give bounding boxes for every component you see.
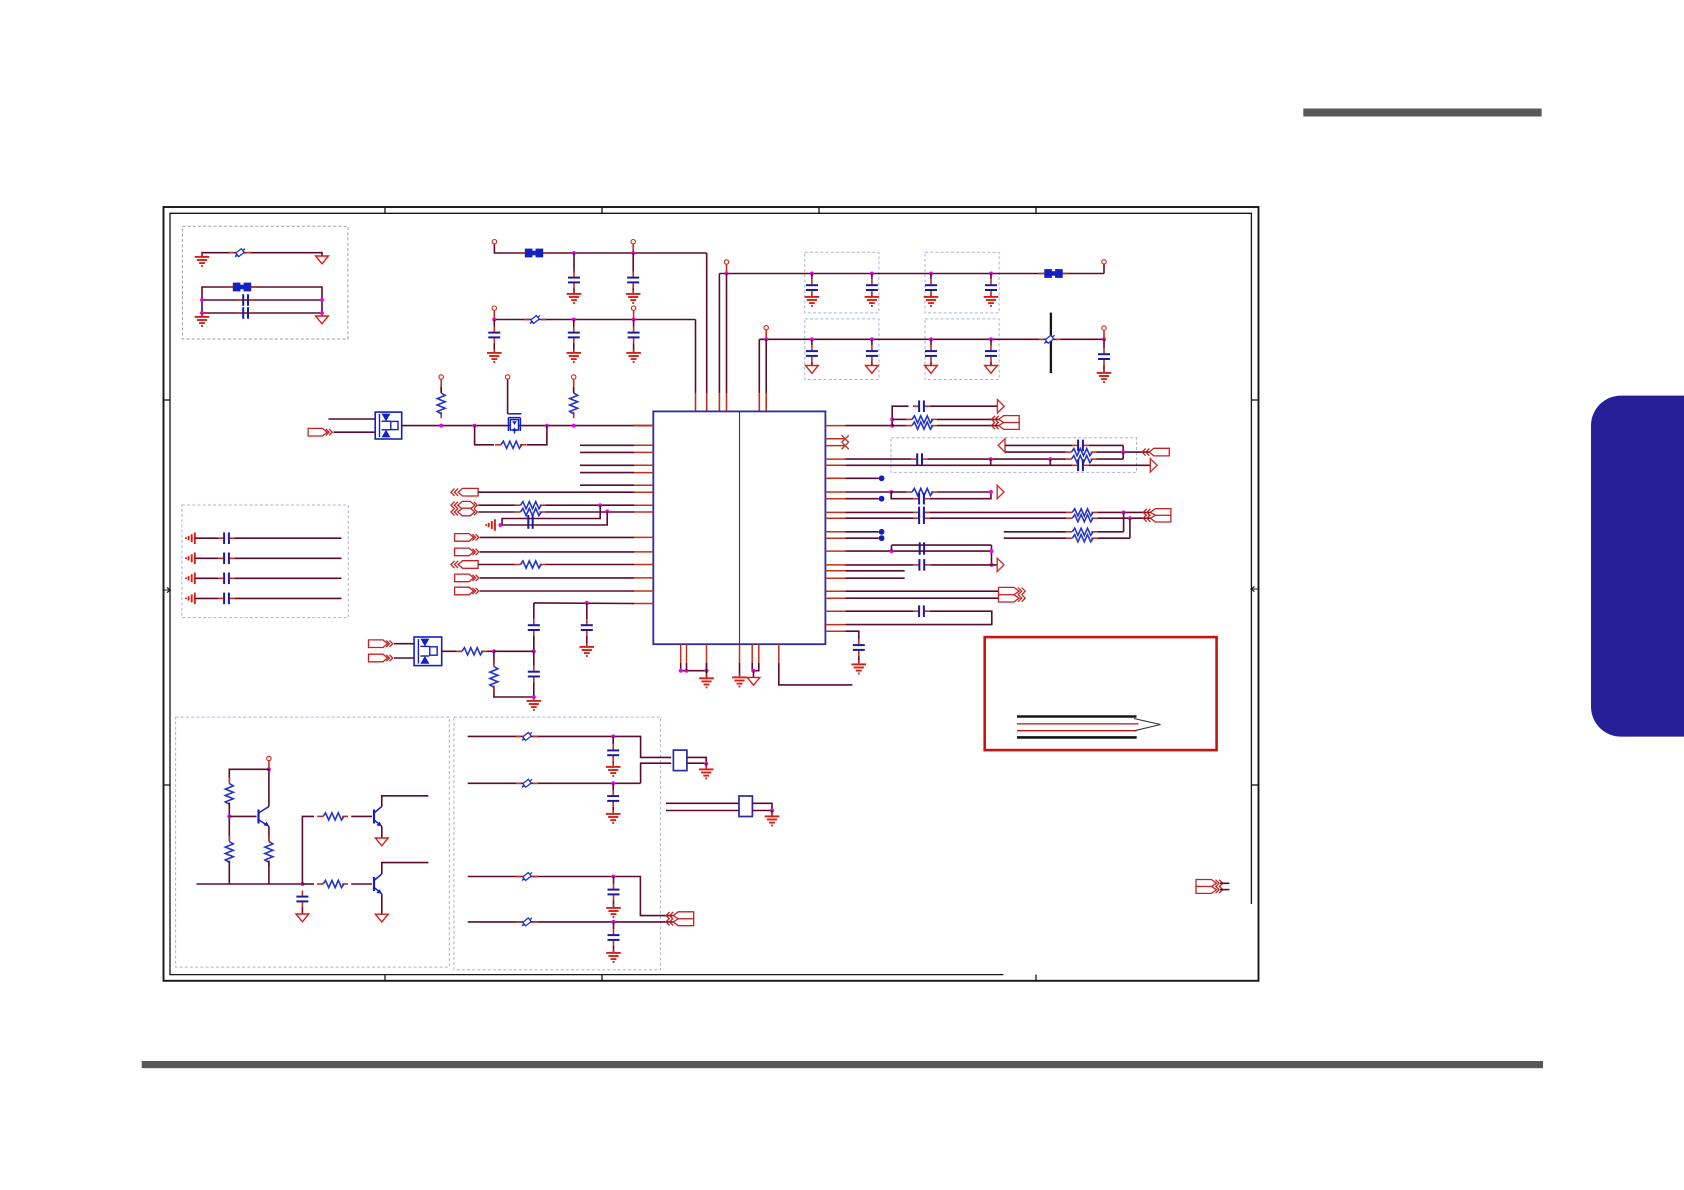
junction [267, 767, 271, 771]
wire C22 [533, 603, 535, 619]
wire J7 [480, 577, 634, 579]
wire row2 pin riser [765, 331, 767, 340]
wire C16 [1103, 365, 1105, 372]
input pin J10 [369, 654, 393, 662]
wire row1 pin riser [726, 265, 728, 274]
junction [545, 424, 549, 428]
junction C4 [631, 251, 635, 255]
wire C37 [612, 807, 614, 813]
wire U1 right 478.3 [845, 477, 878, 479]
junction C39 [612, 920, 616, 924]
wire 465.3 right segment b [1089, 464, 1150, 466]
power arrow C12 [806, 366, 819, 374]
wire row 419.4b [937, 418, 999, 420]
junction [499, 523, 503, 527]
wire D2 out b [481, 650, 494, 652]
transistor Q3 [374, 874, 382, 894]
junction C12 [810, 337, 814, 341]
junction [704, 762, 708, 766]
wire R20 down [268, 861, 270, 884]
connector box CN5 [673, 750, 687, 771]
ground C10 [924, 293, 939, 306]
capacitor C40 [913, 559, 930, 571]
capacitor C27 [911, 453, 928, 465]
resistor R20 [265, 836, 273, 867]
capacitor C22 [528, 619, 540, 636]
wire rowA pin riser [632, 244, 634, 253]
wire U1 right 538.2 stub dot B [845, 537, 878, 539]
capacitor C36 [607, 744, 619, 761]
junction [1048, 457, 1052, 461]
wire bottom pins pair 1 [681, 663, 707, 671]
wire arrow A2 top branch [1005, 444, 1072, 446]
wire C13 [871, 339, 873, 345]
wire row 531.8b [1097, 531, 1123, 533]
wire C6 [573, 344, 575, 353]
ground (C24) [527, 697, 542, 710]
junction C13 [870, 337, 874, 341]
fuse F4 [516, 731, 538, 743]
wire J3b [478, 511, 515, 513]
wire A2 bottom branch [1005, 451, 1066, 453]
junction [990, 563, 994, 567]
wire net2 right drop [321, 300, 323, 316]
terminator dot D532 [879, 529, 885, 535]
frame tick top x=1036 [1035, 207, 1037, 213]
connector CN1 [992, 416, 1020, 430]
wire R1 to pin [440, 387, 442, 393]
IC U1 bottom pin stubs [681, 644, 779, 663]
wire C10 [930, 295, 932, 297]
terminator dot D478 [879, 475, 885, 481]
frame tick top x=602 [601, 207, 603, 213]
wire gnd-cap row3a [195, 577, 218, 579]
dashed group box (cap bank 1) [805, 252, 879, 313]
capacitor C29 [913, 493, 930, 505]
wire C38 [613, 901, 615, 908]
wire U1 right 492 [845, 491, 891, 493]
junction [473, 424, 477, 428]
frame tick left y=785 [164, 784, 171, 786]
power arrow C15 [985, 366, 998, 374]
ground (CN5) [699, 766, 714, 779]
junction [227, 814, 231, 818]
junction C7 [632, 318, 636, 322]
wire C12 [811, 339, 813, 345]
junction [439, 424, 443, 428]
wire R18 down [228, 803, 230, 841]
dual pin J3 [451, 501, 477, 515]
wire row 492 resistor leg b [937, 491, 991, 493]
input pin J9 [369, 640, 393, 648]
capacitor C12 [806, 345, 818, 362]
wire riser 891.5 [891, 545, 893, 551]
wire Q1 emitter [268, 826, 270, 841]
wire gnd-cap row1b [235, 537, 342, 539]
capacitor C15 [985, 345, 997, 362]
note line 4 (black) [1017, 736, 1137, 739]
junction [605, 510, 609, 514]
wire emitter rail [197, 883, 303, 885]
ground C3 [567, 290, 582, 303]
wire C13 [871, 362, 873, 366]
junction [1102, 337, 1106, 341]
fuse F5 [516, 777, 538, 789]
capacitor C35 [296, 891, 308, 908]
wire bus pin stub [633, 425, 653, 427]
resistor R8 [490, 661, 498, 692]
connector box CN8 [739, 796, 752, 817]
capacitor C16 [1098, 348, 1110, 365]
wire C16 [1103, 339, 1105, 348]
wire filter row2 [468, 782, 641, 784]
wire C6 [573, 320, 575, 327]
junction [320, 311, 324, 315]
no-connect X1 [842, 435, 849, 442]
wire stub y=485.2 [580, 484, 634, 486]
junction C37 [611, 781, 615, 785]
wire CN5 right bottom [687, 762, 706, 764]
capacitor C38 [608, 884, 620, 901]
junction [200, 311, 204, 315]
wire C36 [612, 761, 614, 766]
wire C25 to arrow [930, 405, 997, 407]
frame tick top x=385 [384, 207, 386, 213]
wire v2 [706, 253, 708, 393]
wire R2 to pin [573, 387, 575, 393]
resistor R18 [225, 778, 233, 809]
dashed group box (diff pair 1) [891, 438, 1137, 473]
resistor R11 [1066, 449, 1097, 456]
wire C8 [811, 274, 813, 280]
ground C38 [606, 904, 621, 917]
fuse F7 [516, 916, 538, 928]
wire C14 [930, 362, 932, 366]
wire J9 to D2 [394, 643, 414, 645]
resistor R13 [906, 488, 937, 495]
capacitor C32 [920, 542, 924, 555]
wire riser 991.5 [991, 545, 993, 565]
wire C11 [990, 274, 992, 280]
dashed group box (cap bank 4) [925, 319, 999, 380]
ground C36 [606, 763, 621, 776]
wire R1 pin riser [440, 380, 442, 387]
wire CN5 right top [687, 757, 706, 763]
wire J6 [478, 564, 515, 566]
capacitor C30 [913, 507, 930, 519]
wire row1 bus [719, 273, 1104, 275]
wire C3 [573, 253, 575, 272]
wire row2 pin riser 2 [1103, 331, 1105, 340]
wire base net top [229, 769, 269, 783]
wire C24 to gnd rail [533, 683, 535, 697]
pin P3 [492, 306, 496, 310]
wire base net Q2 riser [302, 816, 314, 884]
wire C26 drop [1122, 445, 1124, 452]
wire CN8 bottom in [666, 810, 739, 812]
wire U1 right 551.1 [845, 550, 991, 552]
resistor R7 [456, 648, 487, 655]
wire rowB pin riser 2 [633, 311, 635, 320]
connector CN3 [1143, 509, 1171, 522]
ground (CN8) [765, 813, 780, 826]
capacitor C26 [1072, 440, 1089, 452]
wire C4 [632, 253, 634, 272]
resistor R5 [515, 508, 546, 515]
capacitor C28 [1072, 460, 1089, 472]
wire U1 right 459.1c [1097, 458, 1124, 460]
red annotation box [985, 637, 1217, 750]
ground (C2 left) [195, 313, 210, 326]
junction [890, 424, 894, 428]
wire Q4 gate riser [507, 380, 509, 414]
pin P5 [724, 260, 728, 264]
junction [890, 417, 894, 421]
junction [492, 649, 496, 653]
wire rowB [494, 319, 695, 321]
wire filter row3 [468, 877, 674, 916]
capacitor C23 [581, 619, 593, 636]
ground C4 [626, 290, 641, 303]
wire U1 right 611.2 loop [845, 610, 913, 612]
terminator dot D538 [879, 535, 885, 541]
pin P10 [572, 375, 576, 379]
pin P1 [492, 240, 496, 244]
IC U1 left pin stubs [633, 426, 653, 604]
wire Q3 collector [382, 863, 429, 874]
junction C5 [492, 318, 496, 322]
capacitor C7 [628, 327, 640, 344]
wire U1 right 459.1b [928, 458, 1066, 460]
wire row 538.2 [1004, 537, 1067, 539]
resistor R9 [906, 416, 937, 423]
wire net2 top [202, 287, 322, 300]
wire arrow A2 top branch b [1089, 444, 1123, 446]
capacitor C5 [488, 327, 500, 344]
junction [320, 298, 324, 302]
sheet frame inner border [170, 213, 1251, 974]
wire row2 to box [641, 763, 672, 783]
capacitor C24 [528, 666, 540, 683]
wire CN7 top [1220, 882, 1229, 884]
wire U1 right 459.1 [845, 458, 911, 460]
wire C9 [871, 274, 873, 280]
ground (rotated) row1 [186, 532, 195, 544]
wire riser 892 [892, 406, 908, 425]
junction [705, 669, 709, 673]
note line 2 (red) [1017, 723, 1139, 725]
junction C23 [585, 601, 589, 605]
pin P12 [267, 756, 271, 760]
wire C15 [990, 362, 992, 366]
wire Q2 collector [382, 796, 429, 807]
junction [572, 424, 576, 428]
wire center gnd [739, 663, 741, 677]
capacitor C4 [627, 272, 639, 289]
pin P4 [631, 306, 635, 310]
wire row 498.7 cap leg b [930, 492, 991, 499]
wire net2 row1 [202, 299, 322, 301]
wire C7 [633, 320, 635, 327]
wire collector net [268, 769, 270, 806]
wire gnd drop 706.5 [706, 663, 708, 677]
wire CN7 bottom [1220, 889, 1229, 891]
junction [725, 272, 729, 276]
transistor Q4 (pass MOSFET) [508, 414, 522, 434]
resistor R17 [1066, 535, 1097, 542]
wire v3 pin stub [718, 393, 720, 411]
wire CN8 right bottom [752, 810, 772, 812]
output pin J4 [455, 534, 479, 542]
wire CN8 right top [752, 803, 772, 810]
wire U1 right 591.2 [845, 590, 998, 592]
power arrow C13 [866, 366, 879, 374]
junction C38 [612, 875, 616, 879]
pin P11 [505, 375, 509, 379]
net arrow A5 [997, 558, 1004, 571]
wire U1 right 611.2 loop b [845, 611, 992, 624]
ground C39 [606, 949, 621, 962]
junction [990, 549, 994, 553]
wire Q4 bypass loop [475, 426, 494, 445]
note line 1 (black) [1017, 715, 1137, 718]
resistor R10 [906, 422, 937, 429]
input pin J1 [308, 428, 332, 436]
wire C34 down [858, 656, 860, 664]
net arrow A4 [997, 485, 1004, 498]
page top gray bar [1303, 109, 1541, 117]
wire net2 left drop [201, 300, 203, 316]
ground (C34) [852, 661, 867, 674]
frame mid arrow right [1251, 587, 1258, 592]
junction C14 [929, 337, 933, 341]
wire v1 [695, 320, 697, 394]
resistor R14 [1066, 509, 1097, 516]
ground C16 [1097, 369, 1112, 382]
wire R21 to Q3 [351, 883, 372, 885]
connector CN7 [1196, 880, 1223, 894]
resistor R16 [1066, 528, 1097, 535]
connector CN4 [999, 587, 1026, 602]
dashed group box (left-mid) [182, 505, 348, 618]
junction C36 [611, 734, 615, 738]
wire row 419.4 [892, 418, 906, 420]
pin P8 [1102, 326, 1106, 330]
resistor R19 [225, 836, 233, 867]
wire C39 [613, 922, 615, 929]
wire riser 1123.6 [1123, 512, 1125, 531]
transistor Q2 [374, 807, 382, 827]
wire C22 [533, 636, 535, 651]
wire C23 [586, 603, 588, 619]
power arrow (C35) [296, 914, 309, 922]
wire row 425.6b [892, 425, 906, 427]
ground C7 [626, 349, 641, 362]
wire R22 to Q2 [351, 815, 372, 817]
wire CN5 gnd [705, 764, 707, 769]
wire C15 [990, 339, 992, 345]
resistor R12 [1066, 456, 1097, 463]
wire row 538.2b [1097, 537, 1130, 539]
page bottom gray bar [142, 1061, 1543, 1068]
wire U1 right 512.4c [1097, 511, 1150, 513]
wire v6 [765, 339, 767, 393]
side tab (navy rounded rectangle) [1591, 396, 1684, 737]
frame tick right y=785 [1251, 784, 1258, 786]
dashed group box (bottom-middle) [454, 717, 661, 970]
ferrite bead FB2 [519, 249, 549, 258]
wire C35 down [301, 908, 303, 915]
wire v5 pin stub [758, 393, 760, 411]
wire J3a2 [545, 504, 634, 506]
wire stub y=472.6 [580, 472, 634, 474]
power arrow (C2 right) [316, 316, 329, 324]
capacitor C2 [237, 307, 254, 319]
capacitor C19 [218, 553, 235, 565]
wire row 425.6c [937, 425, 999, 427]
wire C8 [811, 295, 813, 297]
wire J3b2 [545, 511, 634, 513]
wire U1 right 564.9 [845, 564, 913, 566]
wire C11 [990, 295, 992, 297]
wire U1 right 564.9b [930, 564, 997, 566]
wire J2 [478, 491, 634, 493]
capacitor C3 [568, 272, 580, 289]
wire U1 right 512.4 [845, 511, 913, 513]
wire gnd-cap row4a [195, 597, 218, 599]
wire stub y=465.3 [580, 464, 634, 466]
connector CN6 [666, 912, 694, 926]
capacitor C14 [925, 345, 937, 362]
resistor R4 [515, 502, 546, 509]
wire riser 990.7 [990, 459, 992, 465]
wire base link Q1 [229, 815, 256, 817]
capacitor C21 [218, 593, 235, 605]
wire J1 to D1 [334, 431, 376, 433]
ground (U1 bottom left) [699, 674, 714, 687]
wire gnd-cap row2b [235, 557, 342, 559]
frame tick right y=400 [1251, 399, 1258, 401]
pin P2 [631, 240, 635, 244]
ferrite bead FB3 [1039, 269, 1069, 278]
connector CN2 [1142, 448, 1169, 456]
frame mid arrow left [164, 588, 171, 593]
terminator dot D499 [879, 496, 885, 502]
fuse F6 [516, 871, 538, 883]
wire C37 [612, 783, 614, 790]
wire J6b [545, 564, 634, 566]
wire C12 [811, 362, 813, 366]
capacitor C17 [528, 515, 532, 529]
junction [752, 669, 756, 673]
capacitor C11 [985, 279, 997, 296]
wire row 545.1 [892, 544, 992, 546]
net arrow A1 [997, 400, 1004, 413]
wire gnd-cap row1a [195, 537, 218, 539]
wire gnd-cap row3b [235, 577, 342, 579]
wire v3 [718, 274, 720, 394]
ground (U1 center) [732, 674, 747, 687]
pin P9 [439, 375, 443, 379]
wire C3 [573, 289, 575, 294]
resistor R15 [1066, 515, 1097, 522]
wire J8 [480, 590, 634, 592]
transistor Q1 [259, 807, 269, 827]
ground C11 [984, 293, 999, 306]
IC U1 right pin stubs [825, 426, 845, 632]
capacitor C31 [913, 512, 930, 524]
wire v4 pin stub [726, 393, 728, 411]
